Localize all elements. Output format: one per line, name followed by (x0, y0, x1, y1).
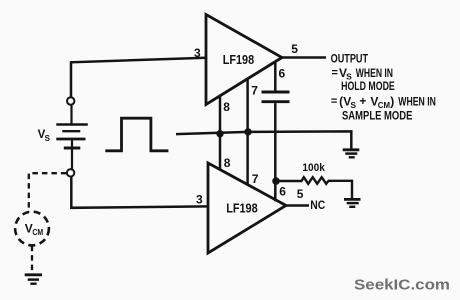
resistor R1 100k (276, 177, 352, 198)
svg-text:WHEN IN: WHEN IN (356, 66, 393, 80)
op-amp U2 LF198 (bottom) (208, 163, 286, 253)
wire pin 8 U1 to U2 (219, 96, 222, 170)
svg-text:3: 3 (196, 193, 203, 207)
svg-text:HOLD MODE: HOLD MODE (341, 79, 395, 93)
svg-text:7: 7 (252, 172, 259, 186)
svg-text:OUTPUT: OUTPUT (331, 51, 369, 65)
terminal circle above VS (67, 97, 74, 104)
wire U1 pin 6 to capacitor (274, 62, 277, 91)
junction dot pin 7 bus (244, 128, 251, 135)
svg-text:LF198: LF198 (226, 202, 258, 216)
wire U1 pin 5 output (282, 56, 326, 59)
svg-text:CM: CM (32, 227, 43, 237)
svg-text:SeekIC.com: SeekIC.com (354, 277, 450, 293)
wire pin 7 U1 to U2 (246, 79, 249, 184)
svg-text:): ) (390, 94, 394, 108)
svg-text:=: = (332, 67, 338, 79)
svg-text:SAMPLE MODE: SAMPLE MODE (342, 109, 412, 123)
ground VCM (25, 275, 42, 284)
pulse waveform symbol (105, 118, 168, 151)
wire capacitor to pin 6 node (crosses bus) (274, 103, 277, 201)
svg-text:S: S (45, 134, 51, 143)
control bus wire to ground (176, 131, 351, 148)
capacitor C1 (262, 92, 290, 102)
dashed wire terminal to VCM (29, 173, 67, 212)
svg-text:=: = (331, 96, 337, 108)
svg-text:LF198: LF198 (223, 53, 254, 67)
svg-text:6: 6 (279, 67, 286, 81)
svg-text:8: 8 (224, 156, 231, 170)
svg-text:8: 8 (223, 100, 230, 114)
ground at bus end (343, 150, 360, 158)
wire VS top terminal to U1 pin 3 (71, 58, 206, 98)
source VCM dashed circle (15, 212, 49, 246)
svg-text:100k: 100k (302, 162, 325, 174)
junction dot pin 8 bus (216, 130, 223, 137)
svg-text:3: 3 (194, 46, 201, 60)
svg-text:NC: NC (310, 198, 325, 212)
junction dot pin 6 node (272, 177, 280, 185)
svg-text:5: 5 (297, 187, 304, 201)
ground at resistor (344, 199, 361, 206)
battery VS (56, 105, 88, 169)
wire U2 pin 5 to NC (286, 204, 309, 207)
terminal circle below VS (67, 169, 74, 176)
wire VS bottom to U2 pin 3 (71, 177, 208, 208)
svg-text:7: 7 (251, 84, 258, 98)
svg-text:6: 6 (279, 185, 286, 199)
dashed wire VCM to ground (31, 246, 33, 274)
svg-text:5: 5 (291, 42, 298, 56)
svg-text:+: + (359, 94, 366, 108)
svg-text:WHEN IN: WHEN IN (398, 94, 436, 108)
op-amp U1 LF198 (top) (206, 15, 282, 105)
